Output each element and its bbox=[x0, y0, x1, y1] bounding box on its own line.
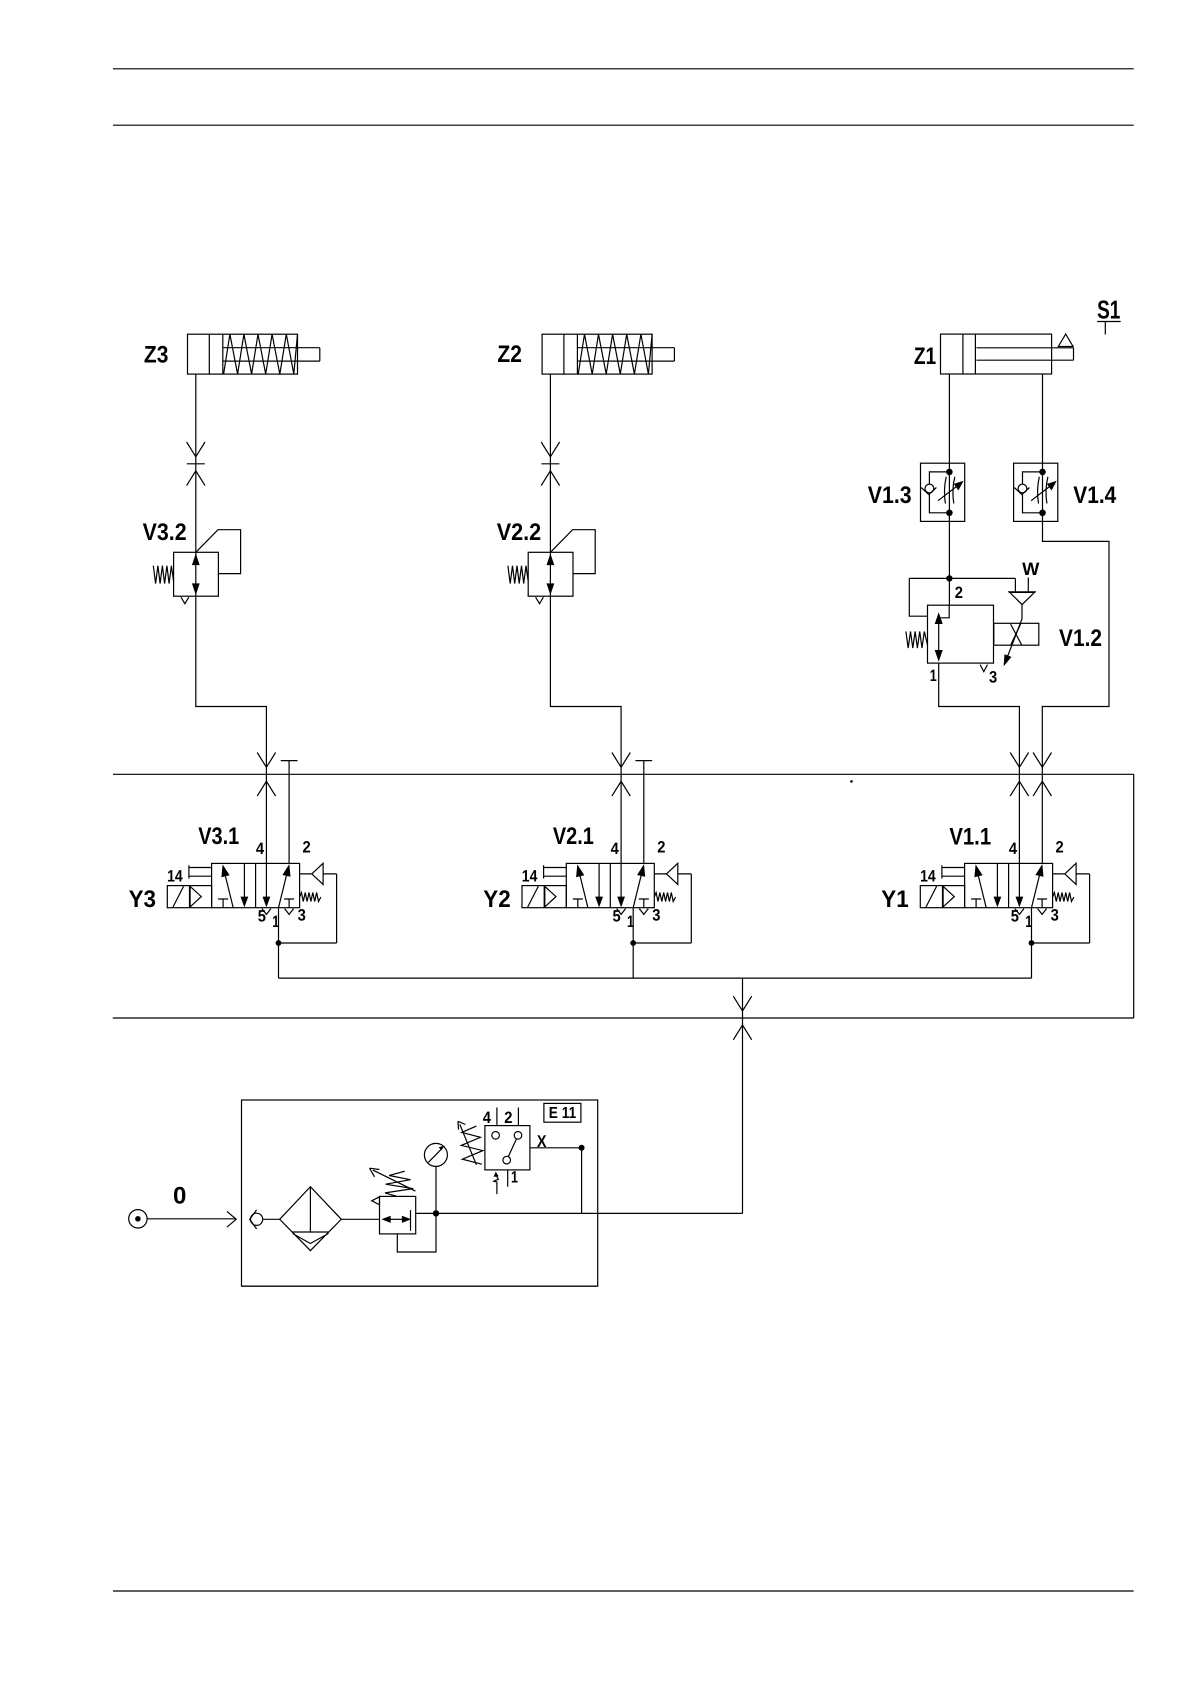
coupling on V1.1 port 4 line bbox=[1010, 753, 1028, 797]
svg-text:V3.2: V3.2 bbox=[143, 519, 187, 546]
svg-text:V1.3: V1.3 bbox=[868, 482, 912, 509]
limit switch marker S1 bbox=[1097, 295, 1121, 335]
supply manifold line bbox=[279, 977, 1032, 979]
valve V2.1 (5/2 solenoid valve) bbox=[522, 839, 692, 978]
wire W signal line bbox=[1027, 578, 1029, 592]
svg-text:2: 2 bbox=[504, 1109, 512, 1127]
svg-text:V1.4: V1.4 bbox=[1073, 482, 1117, 509]
valve V1.1 (5/2 solenoid valve) bbox=[920, 839, 1090, 978]
svg-text:3: 3 bbox=[989, 669, 997, 687]
label box E 11 bbox=[544, 1103, 581, 1122]
svg-text:1: 1 bbox=[930, 667, 937, 685]
svg-text:Y2: Y2 bbox=[483, 886, 510, 913]
svg-text:V1.1: V1.1 bbox=[949, 824, 991, 851]
svg-text:Z1: Z1 bbox=[914, 343, 936, 370]
wire Z2 port to valve V2.1 port 4 bbox=[550, 374, 621, 863]
wire Z1 right port through V1.4 to valve V1.1 port 2 bbox=[1042, 374, 1109, 863]
wire Z1 left port through V1.3 to V1.2 port 2 bbox=[948, 374, 950, 605]
pressure gauge bbox=[424, 1143, 447, 1213]
svg-text:1: 1 bbox=[511, 1169, 518, 1187]
pressure switch port 2 line bbox=[517, 1108, 519, 1126]
header rule 2 bbox=[113, 124, 1134, 126]
svg-text:V1.2: V1.2 bbox=[1059, 625, 1102, 652]
pilot line to valve V1.2 (bold) bbox=[909, 577, 1015, 579]
air service unit box bbox=[242, 1100, 598, 1286]
coupling on Z3 line bbox=[187, 442, 205, 486]
wire V1.2 port 1 to valve V1.1 port 4 bbox=[939, 663, 1020, 863]
cylinder Z2 (single-acting, spring return) bbox=[542, 334, 674, 374]
cylinder Z1 (double-acting) bbox=[941, 334, 1074, 374]
svg-text:Z3: Z3 bbox=[144, 342, 169, 369]
wire Z3 port to valve V3.1 port 4 bbox=[196, 374, 267, 863]
valve V3.2 (pressure regulator) bbox=[153, 530, 240, 604]
valve V1.4 (one-way flow control) bbox=[1014, 463, 1058, 521]
valve V2.2 (pressure regulator) bbox=[508, 530, 595, 604]
manifold rail lower line bbox=[113, 1017, 1134, 1019]
coupling on line into valve block V3.1 bbox=[257, 753, 275, 797]
supply riser to manifold bbox=[742, 978, 744, 1213]
svg-text:0: 0 bbox=[173, 1183, 186, 1210]
air service unit box bottom edge bbox=[242, 1285, 598, 1287]
svg-text:2: 2 bbox=[955, 584, 963, 602]
wire source to service unit bbox=[147, 1218, 236, 1220]
check valve at inlet bbox=[250, 1210, 263, 1229]
junction node at gauge bbox=[433, 1210, 439, 1216]
wire check valve to filter bbox=[263, 1218, 280, 1220]
svg-text:S1: S1 bbox=[1097, 295, 1120, 325]
plugged stub at V2.1 port 2 bbox=[635, 761, 652, 864]
plug symbol at service unit inlet bbox=[227, 1211, 236, 1227]
junction node on X wire bbox=[579, 1145, 585, 1151]
svg-text:Y3: Y3 bbox=[129, 886, 156, 913]
coupling on line into valve block V2.1 bbox=[612, 753, 630, 797]
svg-text:4: 4 bbox=[483, 1109, 492, 1127]
pressure switch actuation arrow bbox=[494, 1172, 499, 1195]
svg-text:Z2: Z2 bbox=[497, 341, 522, 368]
regulator adjustment spring arrow bbox=[370, 1168, 416, 1196]
pilot triangle W bbox=[1008, 592, 1036, 605]
pressure regulator bbox=[372, 1196, 416, 1234]
svg-text:E 11: E 11 bbox=[549, 1105, 576, 1122]
pressure switch E11 bbox=[485, 1126, 530, 1170]
compressed air source bbox=[129, 1210, 147, 1228]
arrow from W triangle through throttle box bbox=[1004, 605, 1022, 667]
pressure switch port 1 line bbox=[507, 1170, 509, 1187]
junction node at V1.2 port 2 bbox=[946, 575, 952, 581]
valve V3.1 (5/2 solenoid valve) bbox=[167, 839, 337, 978]
svg-text:V3.1: V3.1 bbox=[198, 823, 239, 850]
coupling on supply riser bbox=[733, 996, 751, 1040]
pressure switch spring bbox=[458, 1121, 483, 1165]
wire pilot stub to W triangle bbox=[1014, 578, 1016, 591]
valve V1.2 (pressure valve) bbox=[906, 605, 994, 671]
wire filter to regulator bbox=[341, 1218, 379, 1220]
ink speck bbox=[850, 780, 853, 783]
cam on Z1 piston rod bbox=[1058, 334, 1073, 346]
service unit output line bbox=[416, 1212, 743, 1214]
cylinder Z3 (single-acting, spring return) bbox=[188, 334, 320, 374]
svg-text:W: W bbox=[1022, 559, 1039, 579]
throttle box with X (V1.2 exhaust throttle) bbox=[994, 623, 1039, 645]
pressure switch port 4 line bbox=[496, 1108, 498, 1126]
svg-text:Y1: Y1 bbox=[881, 886, 908, 913]
wire pilot loop to V1.2 left side bbox=[909, 578, 927, 616]
manifold rail upper line bbox=[113, 773, 1134, 775]
coupling on Z2 line bbox=[541, 442, 559, 486]
filter with water separator bbox=[280, 1187, 342, 1251]
manifold rail right edge bbox=[1133, 774, 1135, 1018]
svg-text:V2.1: V2.1 bbox=[553, 823, 594, 850]
regulator relief loop bbox=[397, 1213, 436, 1252]
coupling on V1.1 port 2 line bbox=[1033, 753, 1051, 797]
valve V1.3 (one-way flow control) bbox=[921, 463, 965, 521]
header rule 1 bbox=[113, 68, 1134, 70]
svg-text:V2.2: V2.2 bbox=[497, 519, 542, 546]
wire X output bbox=[530, 1148, 582, 1214]
plugged stub at V3.1 port 2 bbox=[281, 761, 298, 864]
footer rule bbox=[113, 1590, 1134, 1592]
